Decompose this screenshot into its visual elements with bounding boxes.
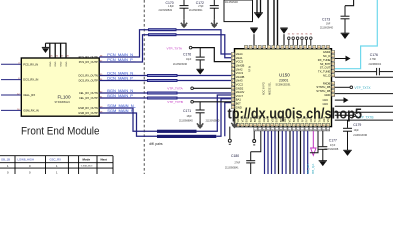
schematic background xyxy=(0,0,393,174)
svg-text:Next: Next xyxy=(101,158,107,162)
svg-text:LNA3: LNA3 xyxy=(236,79,243,83)
U150 top pin 25 xyxy=(267,45,270,48)
pin number box 6 below U150 xyxy=(279,127,282,131)
U150 left pin 11 (LNA4V) xyxy=(231,91,234,94)
U150 left pin 13 (BA1) xyxy=(231,98,234,101)
svg-text:TI AVAILABLE: TI AVAILABLE xyxy=(81,165,94,168)
U150 top pin 31 xyxy=(295,45,298,48)
C174 ground arrow xyxy=(231,113,237,127)
svg-text:VTP_TXTB: VTP_TXTB xyxy=(167,100,183,104)
svg-text:C176: C176 xyxy=(370,53,378,57)
svg-text:MODE SEL: MODE SEL xyxy=(269,81,272,95)
test point wire 2 xyxy=(253,131,255,140)
wire to VTP_TX7X xyxy=(335,86,350,88)
pin number box 16 below U150 xyxy=(322,127,325,131)
transceiver U150 body xyxy=(235,49,332,127)
C170 ground arrow xyxy=(181,20,187,27)
U150 left pin 1 (LNA4) xyxy=(231,53,234,56)
C179 ground xyxy=(343,149,352,151)
svg-text:CEL_RX_OUTN: CEL_RX_OUTN xyxy=(79,91,98,95)
component box 2113/N2N4D xyxy=(224,0,253,22)
U150 top pin 30 xyxy=(290,45,293,48)
svg-text:GSM_RX_OUTN: GSM_RX_OUTN xyxy=(78,106,98,110)
svg-text:RX_TUNE: RX_TUNE xyxy=(318,58,331,62)
capacitor C173 xyxy=(344,6,346,16)
pin number box 4 below U150 xyxy=(271,127,274,131)
truth table xyxy=(0,156,113,174)
svg-text:DCS_RX_OUTP: DCS_RX_OUTP xyxy=(79,79,98,83)
U150 left pin 10 (GND2) xyxy=(231,87,234,90)
U150 right pin 40 (GND4) xyxy=(332,51,335,54)
bus wire x297.0 xyxy=(296,131,298,174)
U150 right pin 50 (GND) xyxy=(332,93,335,96)
page boundary dashed line xyxy=(143,0,145,174)
pin number box 8 below U150 xyxy=(288,127,291,131)
wire PCN_MAIN_N to U150 pin 1 xyxy=(177,30,232,54)
FL100 top pin 25 (GND) xyxy=(49,43,51,58)
svg-text:NC_D: NC_D xyxy=(323,54,330,58)
bus wire x304.0 xyxy=(303,131,305,174)
svg-text:GND2: GND2 xyxy=(236,86,244,90)
svg-text:10pF: 10pF xyxy=(186,59,192,61)
wire SGM_MAIN_P to U150 pin 8 xyxy=(216,99,231,137)
svg-text:VCC7: VCC7 xyxy=(236,94,244,98)
thick differential bar SGM_N xyxy=(157,130,197,133)
svg-text:DCS_RX_IN: DCS_RX_IN xyxy=(23,78,38,82)
magenta off-page arrow xyxy=(311,148,316,155)
svg-text:2113SN3N3R: 2113SN3N3R xyxy=(173,64,187,66)
U150 left pin 9 (VCC2) xyxy=(231,83,234,86)
U150 right pin 43 (SF_BYP) xyxy=(332,62,335,65)
U150 top pin 28 xyxy=(281,45,284,48)
svg-text:27pF: 27pF xyxy=(198,6,204,8)
wire input net CELL_RX xyxy=(1,94,21,96)
differential line bar DCN_P xyxy=(147,79,178,82)
bus wire x260.8 xyxy=(251,131,261,152)
U150 top pin 22 xyxy=(254,45,257,48)
U150 right pin 46 (NC_D) xyxy=(332,74,335,77)
ground symbol top middle xyxy=(254,12,263,14)
U150 right pin 48 (STNTH_FB) xyxy=(332,86,335,89)
wire right y120.1 xyxy=(335,119,393,121)
svg-text:STNTH_FB: STNTH_FB xyxy=(316,85,330,89)
svg-text:ST30M6B124: ST30M6B124 xyxy=(55,101,71,104)
svg-text:SYNTH_FB: SYNTH_FB xyxy=(316,89,330,93)
svg-text:FL100: FL100 xyxy=(58,94,71,99)
bus wire x275.0 xyxy=(274,131,276,174)
wire SGM_MAIN_N xyxy=(99,108,157,131)
pin number box 12 below U150 xyxy=(305,127,308,131)
pin number box 3 below U150 xyxy=(267,127,270,131)
wire SGM_MAIN_P xyxy=(99,113,157,136)
wire right y112.2 xyxy=(335,111,393,113)
svg-text:27NF: 27NF xyxy=(235,162,241,164)
svg-text:2113/N2N4D: 2113/N2N4D xyxy=(225,2,238,4)
wire right y77 xyxy=(335,76,393,78)
U150 right pin 41 (NC_D) xyxy=(332,54,335,57)
svg-text:2113SN5B41: 2113SN5B41 xyxy=(225,168,239,170)
svg-text:VCC3: VCC3 xyxy=(236,71,244,75)
bus wire x286.0 xyxy=(285,131,287,174)
svg-text:U150: U150 xyxy=(279,73,290,78)
svg-text:2113SN5B4D: 2113SN5B4D xyxy=(206,120,220,122)
pin number box 10 below U150 xyxy=(296,127,299,131)
svg-text:18pF: 18pF xyxy=(187,116,193,118)
wire to VTP_TX7B xyxy=(335,114,353,116)
U150 left pin 5 (LNA2) xyxy=(231,68,234,71)
bus wire x300.5 xyxy=(300,131,302,174)
wire stub riser xyxy=(225,103,232,137)
FL100 top pin 27 (GND) xyxy=(60,43,62,58)
U150 top pin 32 xyxy=(299,45,302,48)
svg-text:2113KN2N3R: 2113KN2N3R xyxy=(353,135,367,137)
svg-text:CEL_RX_OUTP: CEL_RX_OUTP xyxy=(79,96,98,100)
FL100 top pin 26 (GND) xyxy=(54,43,56,58)
svg-text:GND4: GND4 xyxy=(323,50,331,54)
svg-text:ADC IN PD: ADC IN PD xyxy=(263,82,266,95)
svg-text:VCC5: VCC5 xyxy=(236,60,244,64)
svg-text:2113SN3B41: 2113SN3B41 xyxy=(189,10,203,12)
C176 mid ground xyxy=(196,68,204,70)
U150 left pin 8 (LNA3) xyxy=(231,79,234,82)
svg-text:LNA1: LNA1 xyxy=(236,56,243,60)
svg-text:GND: GND xyxy=(322,99,328,102)
svg-text:23001: 23001 xyxy=(279,79,289,83)
U150 top pin 38 xyxy=(327,45,330,48)
svg-text:LNA2B: LNA2B xyxy=(236,64,245,68)
svg-text:CELL_RX: CELL_RX xyxy=(23,93,35,97)
cyan net wire VCC xyxy=(335,0,378,69)
U150 top pin 26 xyxy=(272,45,275,48)
svg-text:GND: GND xyxy=(61,61,63,66)
U150 left pin 6 (VCC3) xyxy=(231,72,234,75)
U150 top pin 23 xyxy=(258,45,261,48)
differential line bar BGN_P xyxy=(147,97,178,100)
svg-text:C172: C172 xyxy=(196,1,204,5)
differential line bar PCN_P xyxy=(148,33,177,36)
wire SGM_MAIN_N to U150 pin 7 xyxy=(197,95,232,131)
svg-text:PCS_RX_IN: PCS_RX_IN xyxy=(23,62,38,66)
svg-text:ST_OUT: ST_OUT xyxy=(320,66,331,70)
svg-text:VTP_TX7X: VTP_TX7X xyxy=(355,86,372,90)
svg-text:2113SN8B4D: 2113SN8B4D xyxy=(179,121,193,123)
C177 ground xyxy=(319,160,327,162)
wire PCN_MAIN_N xyxy=(99,30,148,57)
svg-text:diff. pairs: diff. pairs xyxy=(149,142,163,146)
U150 left pin 15 (GND) xyxy=(231,106,234,109)
svg-text:VTP_TXTA: VTP_TXTA xyxy=(167,87,183,91)
svg-text:tp://dx.uq0is.ch/shop5: tp://dx.uq0is.ch/shop5 xyxy=(228,105,363,122)
wire from top edge x274 xyxy=(273,0,275,45)
svg-text:RXDB: RXDB xyxy=(323,81,331,85)
svg-text:LNA4V: LNA4V xyxy=(236,90,245,94)
svg-text:VCC2: VCC2 xyxy=(236,83,244,87)
svg-text:4.7NF: 4.7NF xyxy=(370,59,377,61)
wire to ground from top 2 xyxy=(260,0,262,13)
bus wire x290.0 xyxy=(289,131,291,174)
bus wire x293.2 xyxy=(292,131,294,174)
thick differential bar SGM_P xyxy=(157,135,216,138)
ground at FL100 top xyxy=(45,43,47,47)
wire VTP_TXTA upper to U150 pin 3 xyxy=(192,48,231,62)
front-end module FL100 body xyxy=(21,58,99,116)
capacitor C171 xyxy=(199,102,201,110)
svg-text:BB_QA: BB_QA xyxy=(311,164,315,174)
U150 right pin 45 (TX_TUNE) xyxy=(332,70,335,73)
svg-text:BB_I2A: BB_I2A xyxy=(306,164,310,174)
FL100 top pin 28 (GND) xyxy=(65,43,67,58)
svg-text:C171: C171 xyxy=(183,109,191,113)
U150 top pin 35 xyxy=(313,45,316,48)
U150 right pin 49 (SYNTH_FB) xyxy=(332,90,335,93)
svg-text:LNA3B: LNA3B xyxy=(236,75,245,79)
wire from top edge x277.5 xyxy=(277,0,279,45)
U150 top pin 37 xyxy=(322,45,325,48)
U150 top pin 36 xyxy=(317,45,320,48)
svg-text:47pF: 47pF xyxy=(330,145,336,147)
wire from top to C173 xyxy=(345,0,354,6)
bus wire x282.3 xyxy=(281,131,283,174)
svg-text:Mode: Mode xyxy=(83,158,91,162)
U150 top pin 27 xyxy=(276,45,279,48)
svg-text:TX_TUNE: TX_TUNE xyxy=(318,70,330,74)
capacitor C176 mid xyxy=(199,48,201,57)
svg-text:BA1: BA1 xyxy=(236,98,242,102)
wire PCN_MAIN_P xyxy=(99,35,148,62)
U150 right pin 44 (ST_OUT) xyxy=(332,66,335,69)
svg-text:GND: GND xyxy=(66,61,68,66)
svg-text:GSM_RX_IN: GSM_RX_IN xyxy=(23,109,39,113)
pin number box 11 below U150 xyxy=(301,127,304,131)
pin number box 0 below U150 xyxy=(254,127,257,131)
svg-text:GSC_RX: GSC_RX xyxy=(50,158,62,162)
U150 left pin 4 (LNA2B) xyxy=(231,64,234,67)
svg-text:C177: C177 xyxy=(329,138,337,142)
wire to ground from top xyxy=(256,0,258,13)
capacitor C180 xyxy=(250,152,252,161)
svg-text:C176: C176 xyxy=(183,53,191,57)
svg-text:C179: C179 xyxy=(353,123,361,127)
svg-text:GB_1B: GB_1B xyxy=(1,158,10,162)
capacitor C170 xyxy=(183,0,185,5)
differential line bar DCN_N xyxy=(147,74,178,77)
wire right y93.6 xyxy=(335,93,393,95)
pin number box 13 below U150 xyxy=(309,127,312,131)
svg-text:C173: C173 xyxy=(322,18,330,22)
U150 left pin 7 (LNA3B) xyxy=(231,75,234,78)
wire C176 series right xyxy=(335,71,377,73)
capacitor C177 xyxy=(322,131,324,146)
wire input net PCS_RX_IN xyxy=(1,63,21,65)
U150 top pin 21 xyxy=(249,45,252,48)
U150 left pin 14 (B0T) xyxy=(231,102,234,105)
wire PCN_MAIN_P to U150 pin 2 xyxy=(177,35,232,58)
svg-text:PCS_RX_OUTN: PCS_RX_OUTN xyxy=(79,55,98,59)
svg-text:2113/N2N4D: 2113/N2N4D xyxy=(320,28,333,30)
svg-text:10pF: 10pF xyxy=(354,130,360,132)
U150 top pin 33 xyxy=(304,45,307,48)
wire right y106.3 xyxy=(335,105,393,107)
svg-text:Front End Module: Front End Module xyxy=(21,125,100,137)
wire VTP_TXTB to C171 and U150 xyxy=(193,101,231,103)
U150 left pin 12 (VCC7) xyxy=(231,94,234,97)
wire BGN_MAIN_N to U150 pin 6 xyxy=(178,92,232,94)
wire BGN_MAIN_P xyxy=(99,97,147,99)
differential line bar BGN_N xyxy=(147,92,178,95)
bus wire x278.5 xyxy=(278,131,280,174)
wire DCN_MAIN_P xyxy=(99,80,147,82)
bus wire x307.7 xyxy=(307,131,309,174)
pin number box 1 below U150 xyxy=(258,127,261,131)
wire DCN_MAIN_N xyxy=(99,75,147,77)
svg-text:NC_D: NC_D xyxy=(323,74,330,78)
U150 right stub with off-page arrow pin 47 xyxy=(335,99,344,101)
wire DCN_MAIN_P to U150 xyxy=(178,80,232,82)
svg-text:C180: C180 xyxy=(231,154,239,158)
svg-text:RF IN: RF IN xyxy=(249,65,252,72)
U150 right pin 42 (RX_TUNE) xyxy=(332,58,335,61)
svg-text:GSM_RX_OUTP: GSM_RX_OUTP xyxy=(78,111,98,115)
magenta wire BB xyxy=(312,131,314,148)
pin number box 9 below U150 xyxy=(292,127,295,131)
U150 top pin 20 xyxy=(245,45,248,48)
svg-text:1NF: 1NF xyxy=(326,23,331,25)
test point wire 1 xyxy=(229,127,231,140)
C172 ground arrow xyxy=(211,20,217,27)
wire from top edge x268 xyxy=(267,0,269,45)
U150 right pin 47 (RXDB) xyxy=(332,82,335,85)
ground above U150 at x284 xyxy=(283,34,285,45)
ground above U150 at x254 xyxy=(253,34,255,45)
wire input net DCS_RX_IN xyxy=(1,79,21,81)
C173 ground xyxy=(341,32,350,34)
svg-text:C170: C170 xyxy=(166,1,174,5)
svg-text:SC09K2DD91: SC09K2DD91 xyxy=(276,84,292,87)
U150 left pin 3 (VCC5) xyxy=(231,60,234,63)
svg-text:GND: GND xyxy=(55,61,57,66)
U150 left pin 2 (LNA1) xyxy=(231,56,234,59)
wire DCN_MAIN_N to U150 xyxy=(178,75,232,77)
wire BGN_MAIN_P to U150 pin 5 xyxy=(178,97,232,99)
svg-text:LNA4: LNA4 xyxy=(236,52,243,56)
svg-text:DCS_RX_OUTN: DCS_RX_OUTN xyxy=(78,74,97,78)
svg-text:PCS_RX_OUTP: PCS_RX_OUTP xyxy=(79,60,98,64)
U150 right stub with off-page arrow pin 41 xyxy=(335,58,346,60)
wire input net GSM_RX_IN xyxy=(1,109,21,111)
bus wire x264.5 xyxy=(264,131,266,174)
svg-text:2113BDKD4: 2113BDKD4 xyxy=(369,64,382,66)
pin number box 5 below U150 xyxy=(275,127,278,131)
pin number box 2 below U150 xyxy=(262,127,265,131)
wire VTP_TXTA lower to U150 xyxy=(193,87,231,89)
svg-text:GND: GND xyxy=(324,93,330,97)
differential line bar PCN_N xyxy=(148,28,177,31)
svg-text:LOW8_HIGH: LOW8_HIGH xyxy=(18,158,34,162)
svg-text:SF_BYP: SF_BYP xyxy=(320,62,331,66)
svg-text:LNA2: LNA2 xyxy=(236,67,243,71)
svg-text:2113SN2N0B: 2113SN2N0B xyxy=(324,149,338,151)
svg-text:VTP_TXTA: VTP_TXTA xyxy=(167,46,183,50)
pin number box 14 below U150 xyxy=(314,127,317,131)
svg-text:GND: GND xyxy=(50,61,52,66)
capacitor C176 right (series) xyxy=(377,68,380,75)
pin number box 17 below U150 xyxy=(326,127,329,131)
svg-text:2113SN6B32: 2113SN6B32 xyxy=(159,10,173,12)
U150 top pin 24 xyxy=(263,45,266,48)
pin number box 15 below U150 xyxy=(318,127,321,131)
wire to BB connector xyxy=(310,131,318,153)
wire BGN_MAIN_N xyxy=(99,92,147,94)
svg-text:1.8pF: 1.8pF xyxy=(168,6,174,8)
pin number box 7 below U150 xyxy=(284,127,287,131)
bus wire x271.5 xyxy=(271,131,273,174)
FL100 top ground wire xyxy=(46,42,67,44)
U150 top pin 34 xyxy=(308,45,311,48)
bus wire x268.0 xyxy=(267,131,269,174)
capacitor C172 xyxy=(213,0,215,5)
U150 top pin 29 xyxy=(286,45,289,48)
capacitor C179 xyxy=(347,120,349,128)
